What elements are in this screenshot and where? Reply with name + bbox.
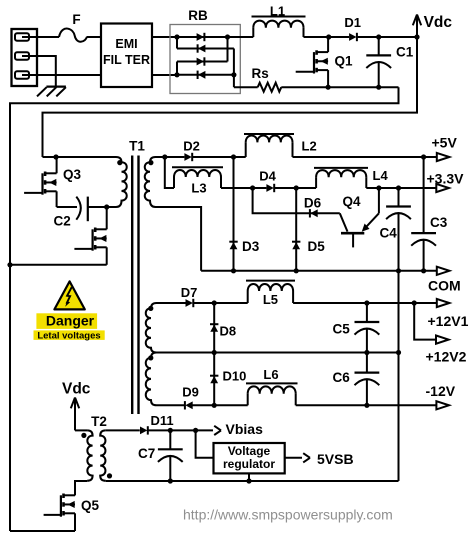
svg-text:C4: C4 (380, 225, 398, 240)
T1 secondary winding -12V lower (146, 353, 157, 406)
fuse F (59, 12, 87, 42)
Vbias arrow (214, 421, 263, 437)
svg-text:T2: T2 (91, 414, 107, 429)
danger warning triangle (54, 281, 84, 309)
svg-text:COM: COM (428, 278, 461, 294)
diode D5 (292, 239, 325, 254)
svg-text:L2: L2 (302, 139, 317, 154)
diode D10 (210, 369, 246, 384)
svg-text:C3: C3 (430, 215, 448, 230)
transformer T1 core (129, 138, 145, 414)
wire winding to D9 (157, 404, 185, 406)
5VSB return rail (106, 478, 399, 483)
svg-text:D3: D3 (242, 239, 260, 254)
RB diode bottom-left (198, 71, 206, 79)
svg-text:+12V1: +12V1 (428, 313, 469, 329)
svg-text:D7: D7 (181, 285, 198, 300)
svg-text:D6: D6 (304, 195, 322, 210)
svg-text:FIL TER: FIL TER (103, 53, 150, 67)
diode D6 (304, 195, 322, 217)
svg-text:5VSB: 5VSB (317, 451, 354, 467)
EMI filter box (101, 24, 152, 88)
+3.3V output arrow (427, 171, 465, 193)
wire D9 to L6 (192, 403, 248, 408)
capacitor C6 (333, 353, 380, 406)
danger label (36, 313, 97, 329)
AC input connector (12, 29, 38, 86)
website url (183, 507, 393, 523)
T1 primary winding (107, 157, 127, 207)
wire fuse to EMI filter (87, 36, 102, 38)
diode D8 (210, 324, 236, 339)
svg-text:T1: T1 (129, 138, 145, 153)
wire L3 to D4 (221, 185, 266, 190)
svg-text:+12V2: +12V2 (426, 348, 467, 364)
voltage regulator box U1 (214, 443, 285, 473)
+12V2 output arrow (426, 336, 467, 365)
svg-text:regulator: regulator (223, 457, 275, 471)
wire D1 to Vdc node (357, 36, 417, 38)
node D2 anode (162, 154, 167, 159)
svg-text:F: F (72, 12, 80, 27)
svg-text:http://www.smpspowersupply.com: http://www.smpspowersupply.com (183, 507, 393, 523)
wire regulator ground pin (246, 473, 251, 483)
wires EMI to bridge rectifier (152, 37, 177, 75)
svg-text:D11: D11 (151, 413, 174, 428)
transistor Q2 lower (74, 207, 106, 265)
wire COM to center tap and 5VSB return (398, 271, 400, 481)
diode D4 (259, 169, 276, 193)
diode D8 branch (213, 303, 215, 353)
svg-text:L6: L6 (263, 367, 278, 382)
node Q1 drain (326, 34, 331, 39)
inductor L4 (314, 168, 388, 188)
rectifier bridge RB box (170, 8, 240, 94)
svg-text:C7: C7 (138, 446, 155, 461)
RB diode third-right (197, 57, 205, 65)
+5V output arrow (432, 135, 458, 161)
RB diode second-left (198, 44, 206, 52)
center tap row (157, 350, 402, 355)
wire PFC bottom rail (281, 85, 398, 90)
inductor L3 (172, 167, 223, 195)
wire L5 to +12V1 (293, 300, 437, 305)
wire D4 to L4 (274, 185, 316, 190)
svg-text:L3: L3 (191, 181, 206, 196)
capacitor C7 (138, 430, 183, 481)
Vdc arrow bottom (62, 381, 91, 431)
svg-text:Vdc: Vdc (424, 14, 453, 31)
diode D1 (344, 15, 361, 41)
svg-text:C1: C1 (396, 45, 414, 60)
diode D11 (140, 413, 174, 435)
wire winding to D7 (157, 302, 186, 304)
inductor L2 (244, 134, 317, 157)
node C1 top (376, 34, 381, 39)
COM output arrow (428, 267, 461, 294)
wire T2 primary to Q5 (75, 481, 87, 495)
transformer T2 secondary winding (100, 430, 140, 480)
wire RB to L1 (228, 36, 254, 38)
+12V1 output arrow (428, 299, 469, 329)
svg-text:Q4: Q4 (343, 194, 362, 209)
svg-text:D5: D5 (308, 239, 326, 254)
svg-text:-12V: -12V (426, 383, 456, 399)
svg-text:D8: D8 (220, 324, 237, 339)
svg-text:D4: D4 (259, 169, 276, 184)
diode D3 (229, 239, 259, 254)
svg-text:EMI: EMI (115, 37, 137, 51)
wire D7 to L5 (193, 300, 247, 305)
svg-text:Vdc: Vdc (62, 381, 91, 398)
wire line to fuse (37, 36, 59, 38)
letal voltages label (34, 330, 105, 341)
capacitor C1 (366, 37, 413, 87)
svg-text:+3.3V: +3.3V (427, 171, 465, 187)
resistor Rs (234, 66, 281, 92)
diode D5 branch (295, 188, 297, 271)
wire Q3 source to C2 (57, 206, 77, 208)
svg-text:Q3: Q3 (63, 167, 82, 182)
svg-text:Q5: Q5 (81, 498, 100, 513)
svg-text:C6: C6 (333, 370, 351, 385)
svg-text:C5: C5 (333, 322, 351, 337)
wire D6 branch (253, 188, 340, 213)
inductor L1 (252, 3, 306, 37)
svg-text:L1: L1 (270, 3, 285, 18)
transistor Q5 (44, 481, 100, 531)
wire L4 to +3.3V (366, 185, 436, 190)
svg-text:Letal voltages: Letal voltages (37, 330, 100, 341)
wire regulator input (196, 430, 214, 457)
capacitor C3 (411, 157, 448, 271)
-12V output arrow (426, 383, 456, 410)
T1 secondary winding +12V upper (146, 303, 157, 353)
wire +12V2 branch (414, 303, 436, 340)
inductor L5 (246, 281, 295, 307)
transformer T2 primary winding (75, 414, 107, 481)
transistor Q3 (24, 157, 81, 207)
wire earth prong down (37, 56, 56, 87)
node half-bridge midpoint (104, 204, 109, 209)
svg-text:Danger: Danger (46, 313, 95, 329)
RB wiring (174, 34, 236, 87)
primary ground bottom rail (10, 530, 75, 532)
svg-text:D10: D10 (223, 369, 247, 384)
diode D3 branch (233, 157, 235, 271)
svg-text:+5V: +5V (432, 135, 458, 151)
diode D2 (165, 138, 200, 161)
svg-text:D2: D2 (183, 138, 200, 153)
RB diode top-right (197, 33, 205, 41)
diode D10 branch (213, 353, 215, 406)
svg-text:C2: C2 (54, 214, 71, 229)
wire D2 to L2 node (192, 154, 246, 159)
Vdc arrow up (413, 14, 453, 40)
svg-text:Voltage: Voltage (228, 444, 271, 458)
svg-text:D9: D9 (182, 384, 199, 399)
svg-text:D1: D1 (344, 15, 361, 30)
5VSB output arrow (285, 451, 354, 467)
transistor Q4 (340, 188, 379, 247)
wire secondary bottom to COM (156, 207, 202, 271)
transistor Q1 (296, 37, 353, 87)
diode D7 (181, 285, 198, 307)
inductor L6 (246, 367, 298, 405)
svg-text:Rs: Rs (252, 66, 269, 81)
svg-text:L5: L5 (263, 292, 278, 307)
svg-text:Q1: Q1 (335, 53, 354, 68)
COM rail (201, 268, 437, 273)
wire L1 to D1 node (304, 36, 350, 38)
svg-text:Vbias: Vbias (226, 421, 264, 437)
wire L2 to +5V (293, 154, 437, 159)
wire Q3 drain row (43, 154, 117, 159)
svg-text:RB: RB (188, 8, 208, 23)
capacitor C5 (333, 303, 380, 353)
wire neutral to EMI filter (37, 74, 101, 76)
earth ground symbol (37, 87, 66, 97)
wire Vdc rail to half bridge (43, 37, 418, 157)
diode D9 (182, 384, 199, 409)
wire L3 branch (165, 157, 174, 188)
wire L6 to -12V (296, 403, 437, 408)
wire D11 to Vbias (148, 428, 213, 433)
wire PFC return to primary ground rail (10, 87, 399, 531)
wire Q2 source to ground rail (7, 262, 106, 267)
svg-text:L4: L4 (373, 168, 389, 183)
capacitor C2 (54, 197, 107, 229)
T1 secondary upper winding (145, 157, 165, 207)
capacitor C4 (380, 188, 411, 271)
